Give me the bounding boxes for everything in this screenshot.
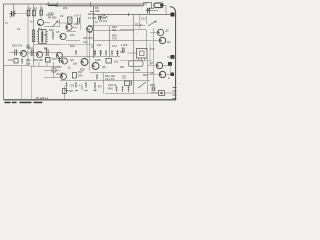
svg-text:100k: 100k — [95, 58, 101, 62]
svg-text:C1 10: C1 10 — [46, 13, 53, 17]
svg-text:R40: R40 — [108, 87, 113, 91]
svg-text:10u: 10u — [70, 33, 75, 37]
svg-text:Q8: Q8 — [150, 71, 154, 75]
svg-text:470: 470 — [98, 86, 103, 89]
svg-text:+C4: +C4 — [74, 14, 79, 18]
svg-text:R33: R33 — [143, 74, 148, 77]
svg-text:C24 1u: C24 1u — [108, 83, 117, 87]
svg-text:C5: C5 — [56, 30, 60, 34]
svg-text:Q2: Q2 — [22, 49, 26, 53]
svg-text:C11: C11 — [83, 41, 88, 44]
svg-text:C15: C15 — [8, 58, 13, 62]
svg-text:C10: C10 — [88, 37, 93, 40]
svg-text:C7 473: C7 473 — [88, 16, 97, 20]
svg-text:R12: R12 — [49, 28, 54, 32]
svg-text:Q4: Q4 — [167, 40, 171, 44]
svg-text:33k: 33k — [112, 28, 117, 32]
svg-text:SW: SW — [120, 66, 125, 69]
svg-text:R15: R15 — [70, 44, 75, 48]
svg-text:R10 4.7k: R10 4.7k — [12, 45, 23, 48]
svg-text:220: 220 — [78, 74, 83, 78]
svg-text:R13: R13 — [28, 47, 33, 50]
svg-text:473: 473 — [150, 48, 155, 51]
svg-text:4.7k: 4.7k — [112, 37, 118, 41]
svg-text:1 103: 1 103 — [121, 44, 128, 47]
svg-text:R27: R27 — [78, 70, 83, 74]
svg-text:IC1: IC1 — [38, 27, 43, 31]
svg-text:IC: IC — [44, 34, 47, 37]
svg-text:R24 100: R24 100 — [33, 58, 43, 62]
svg-text:4.7: 4.7 — [79, 85, 83, 88]
svg-text:Q7: Q7 — [150, 61, 154, 65]
svg-text:4P-1234-1: 4P-1234-1 — [36, 96, 49, 100]
svg-text:TP1: TP1 — [52, 58, 57, 61]
svg-text:103: 103 — [114, 61, 119, 64]
svg-text:2SC: 2SC — [74, 22, 79, 26]
svg-text:C8: C8 — [44, 47, 48, 51]
svg-text:10k: 10k — [26, 62, 31, 66]
svg-text:20k: 20k — [63, 6, 68, 10]
svg-text:Q6: Q6 — [102, 65, 106, 69]
svg-text:Q3: Q3 — [165, 29, 169, 33]
svg-text:R1: R1 — [28, 7, 32, 11]
svg-text:SW1: SW1 — [135, 68, 141, 72]
svg-text:C3: C3 — [60, 14, 64, 18]
svg-text:C13: C13 — [141, 18, 146, 21]
svg-text:R2: R2 — [34, 7, 38, 11]
svg-text:C21 47u: C21 47u — [105, 77, 115, 81]
svg-text:104: 104 — [97, 44, 102, 47]
svg-text:R35: R35 — [150, 83, 155, 87]
svg-text:C12: C12 — [112, 44, 117, 48]
svg-text:VR: VR — [146, 8, 150, 12]
svg-text:Q5: Q5 — [70, 58, 74, 62]
svg-text:C26: C26 — [68, 89, 73, 93]
svg-text:C25: C25 — [70, 85, 75, 88]
svg-text:33k: 33k — [95, 9, 100, 13]
svg-text:R22: R22 — [26, 58, 31, 62]
svg-text:R16: R16 — [88, 25, 93, 28]
svg-text:104: 104 — [102, 17, 107, 20]
svg-text:R3: R3 — [40, 7, 44, 11]
